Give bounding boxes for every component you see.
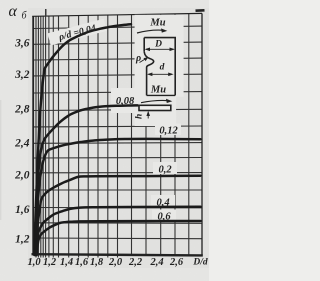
wire h-gridline: [33, 109, 202, 110]
wire v-gridline: [107, 15, 109, 258]
scan artifact tick top: [45, 9, 47, 16]
wire h-gridline: [33, 189, 202, 191]
wire h-gridline: [33, 157, 202, 160]
wire v-gridline: [87, 15, 89, 257]
wire v-gridline: [78, 16, 80, 258]
wire h-gridline: [33, 222, 202, 225]
wire h-gridline: [33, 92, 202, 93]
wire v-gridline: [45, 16, 47, 257]
node dimension h: [147, 113, 149, 119]
wire h-gridline: [33, 125, 202, 128]
wire v-gridline: [188, 14, 190, 255]
curve rho/d=0.12: [35, 139, 200, 255]
wire v-gridline: [174, 14, 176, 255]
wire h-gridline: [33, 42, 202, 44]
curve rho/d=0.4: [36, 207, 200, 255]
scan artifact left edge: [0, 100, 1, 220]
wire h-gridline: [33, 74, 202, 76]
wire h-gridline: [33, 172, 202, 174]
wire h-gridline: [33, 207, 202, 209]
paper noise: [0, 0, 1, 1]
wire v-gridline: [145, 14, 147, 254]
wire v-gridline: [97, 15, 99, 257]
node frame: [32, 13, 203, 255]
wire v-gridline: [52, 16, 54, 258]
curve rho/d=0.2: [36, 176, 201, 255]
curve rho/d=0.04: [34, 24, 131, 255]
wire v-gridline: [58, 16, 60, 258]
node flange plate h: [139, 105, 171, 110]
wire v-gridline: [35, 16, 37, 257]
wire moment arrow bottom: [141, 100, 169, 102]
wire v-gridline: [160, 14, 162, 255]
wire v-gridline: [131, 15, 133, 255]
scan artifact dash top right: [195, 9, 204, 12]
wire h-gridline: [33, 237, 202, 240]
wire h-gridline: [33, 58, 202, 60]
wire moment arrow top: [137, 30, 164, 33]
wire v-gridline: [117, 15, 119, 258]
wire h-gridline: [33, 142, 202, 145]
paper background: [0, 0, 209, 281]
wire v-gridline: [48, 16, 50, 258]
node shaft outline: [144, 38, 175, 96]
wire v-gridline: [68, 16, 70, 258]
curve rho/d=0.08: [35, 105, 138, 255]
wire v-gridline: [37, 16, 39, 257]
curve rho/d=0.6: [37, 221, 201, 255]
wire h-gridline: [33, 26, 202, 28]
wire v-gridline: [40, 16, 42, 257]
node fillet rho: [144, 52, 153, 96]
wire v-gridline: [42, 16, 44, 257]
